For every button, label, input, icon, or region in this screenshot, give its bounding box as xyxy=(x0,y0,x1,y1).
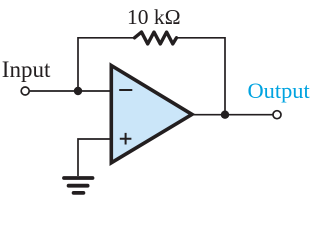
op-amp inverting input minus sign xyxy=(119,89,132,91)
svg-text:Input: Input xyxy=(2,57,51,82)
ground xyxy=(64,178,93,193)
wire: right vertical from feedback to output junction xyxy=(224,37,226,115)
resistor R feedback xyxy=(135,32,177,44)
wire: feedback top horizontal xyxy=(78,37,225,39)
junction dot at output node xyxy=(221,111,229,119)
wire: output horizontal xyxy=(192,114,273,116)
node Input label xyxy=(2,57,51,82)
wire: left vertical from feedback to inverting input junction xyxy=(77,37,79,91)
svg-text:Output: Output xyxy=(248,78,311,103)
node Output label xyxy=(248,78,311,103)
op-amp U1 xyxy=(111,66,192,163)
wire: input horizontal to inverting input xyxy=(30,90,110,92)
svg-text:10 kΩ: 10 kΩ xyxy=(127,5,181,29)
wire: ground branch from non-inverting input xyxy=(78,139,110,176)
op-amp non-inverting input plus sign xyxy=(120,133,132,145)
output terminal circle xyxy=(273,111,281,119)
junction dot at inverting input node xyxy=(74,87,82,95)
value label 10 kΩ xyxy=(127,5,181,29)
input terminal circle xyxy=(21,87,29,95)
